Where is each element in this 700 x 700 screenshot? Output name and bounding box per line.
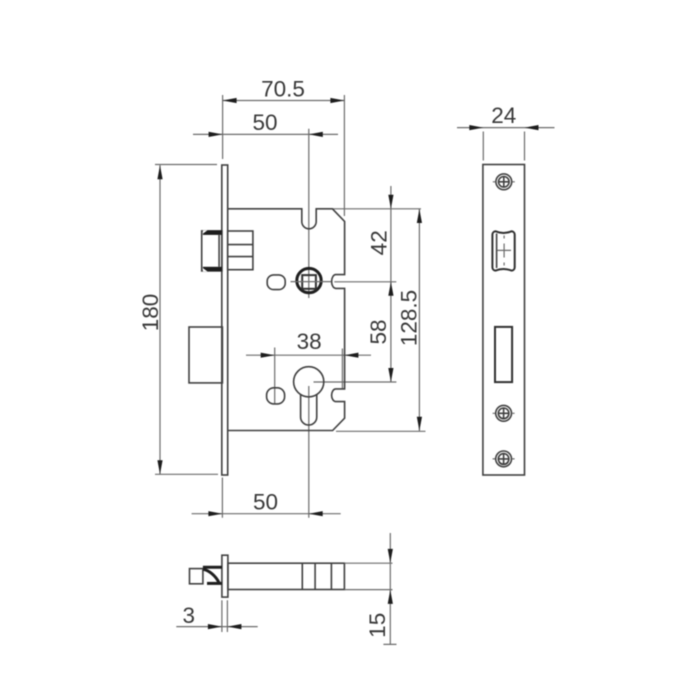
- deadbolt cutout side view: [495, 327, 512, 382]
- latch body front view: [228, 231, 253, 270]
- svg-text:58: 58: [366, 319, 391, 344]
- lock case outline: [228, 209, 345, 431]
- dimension 180 line: [138, 165, 218, 475]
- oval hole lower: [267, 388, 285, 404]
- svg-text:70.5: 70.5: [261, 76, 305, 101]
- screw hole middle: [493, 405, 515, 421]
- dimension 15 line: [344, 533, 396, 645]
- dimension 42 / 58 line: [366, 186, 394, 382]
- faceplate side view: [483, 165, 525, 476]
- extension line case top: [332, 208, 421, 210]
- latch head front view: [202, 230, 222, 271]
- latch bottom view: body: [228, 563, 345, 589]
- svg-text:15: 15: [365, 613, 390, 638]
- svg-text:180: 180: [138, 294, 163, 332]
- screw hole top: [493, 174, 515, 190]
- dimension 50 top line: [193, 110, 338, 137]
- deadbolt front view: [189, 327, 222, 383]
- dimension 70.5 line: [223, 76, 345, 216]
- spindle follower: [291, 268, 332, 292]
- svg-text:50: 50: [253, 490, 278, 515]
- screw hole bottom: [493, 451, 515, 467]
- svg-text:128.5: 128.5: [397, 290, 422, 346]
- dimension 38 line: [246, 329, 371, 403]
- latch bottom view: bolt tip: [190, 567, 222, 584]
- latch bottom view: plate section: [222, 555, 228, 597]
- extension line case bottom: [336, 430, 426, 432]
- extension line spindle level: [334, 281, 396, 283]
- svg-text:38: 38: [297, 329, 322, 354]
- dimension 3 line: [176, 600, 257, 632]
- svg-text:50: 50: [252, 110, 277, 135]
- extension line cylinder level: [314, 381, 397, 383]
- svg-text:42: 42: [367, 230, 392, 255]
- svg-text:3: 3: [183, 603, 196, 628]
- oval hole upper: [267, 275, 285, 290]
- euro cylinder hole: [294, 367, 324, 425]
- dimension 128.5 line: [397, 209, 422, 431]
- dimension 50 bottom line: [192, 478, 341, 518]
- faceplate front view: [222, 165, 228, 475]
- svg-text:24: 24: [491, 103, 516, 128]
- centerline (spindle/cylinder axis): [308, 129, 310, 518]
- dimension 24 line: [457, 103, 555, 161]
- latch cutout side view: [492, 231, 514, 270]
